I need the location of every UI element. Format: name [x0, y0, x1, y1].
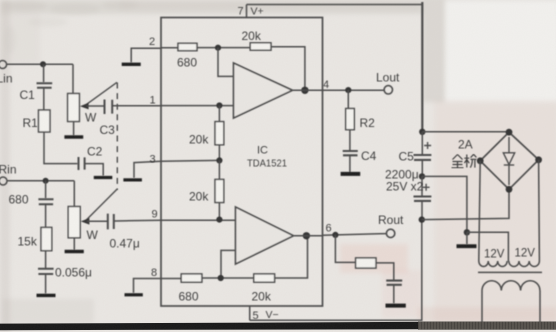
plus sign C5b [423, 184, 430, 191]
potentiometer VR1 body [68, 94, 80, 122]
capacitor C5a [414, 155, 432, 160]
wire pin1 node to 20k a [218, 106, 220, 122]
node pin1 [216, 102, 222, 108]
capacitor C3 [105, 100, 113, 115]
wire Rin to pot2 [7, 180, 74, 182]
wire 0.056 to ground [45, 275, 47, 294]
wire 680 to 20k fb1 [197, 47, 250, 49]
terminal Rout [386, 229, 394, 237]
transformer secondary right 12V [509, 261, 540, 267]
wire C5a to mid node [421, 160, 423, 176]
wire node to transformer tap [467, 232, 509, 261]
resistor 680 pin2 [178, 43, 197, 50]
wire 20k b to pin9 node [218, 203, 220, 220]
resistor R1 [39, 110, 51, 132]
wire C2 to ground [86, 164, 104, 176]
IC box TDA1521 [161, 18, 323, 307]
capacitor C4 [343, 151, 358, 155]
wire R1 to C2 [44, 132, 77, 164]
pin 7 stub [246, 5, 248, 18]
node fb1 [215, 45, 221, 51]
transformer primary [482, 281, 540, 323]
wire node to R2 [347, 90, 349, 108]
wire pin3 [161, 159, 219, 162]
wire node to 680 cap [45, 181, 47, 198]
wire node to zobel resistor [335, 235, 355, 263]
ground pot1 [64, 135, 83, 138]
wire wiper1 to C3 [87, 105, 104, 107]
capacitor 0.47u [108, 214, 114, 230]
wire node to C1 [43, 64, 45, 82]
V+ rail [247, 2, 423, 132]
wire fb2 to output [275, 236, 308, 278]
node Lin junction [40, 61, 46, 67]
wire pin9 [161, 219, 236, 221]
wire C1 to R1 [43, 89, 45, 111]
input terminal Rin [0, 177, 7, 185]
ground pot2 [65, 250, 84, 253]
wire C5b to bottom node [421, 201, 423, 219]
black scan bar bottom [0, 322, 556, 331]
capacitor C1 [37, 83, 53, 88]
wire 15k to 0.056 [45, 251, 47, 268]
node opamp2 output [303, 232, 310, 239]
node V+ C5 top [419, 129, 425, 135]
terminal Lout [384, 86, 392, 94]
wire pin2 to 680 [161, 47, 178, 49]
wire 680 to node [202, 277, 254, 279]
ground zobel2 [386, 304, 406, 308]
wire 0.47 to pin9 [115, 219, 162, 222]
resistor 680 pin8 [181, 274, 202, 282]
wire Rin to pot2 top [73, 181, 75, 207]
wire pin2 stub [131, 48, 161, 62]
wire C4 to ground [349, 156, 351, 172]
resistor 20k b [215, 179, 224, 202]
wire Lin to pot1 top [72, 64, 74, 93]
input terminal Lin [0, 61, 7, 69]
pink tint right area [434, 100, 556, 324]
capacitor zobel2 [386, 281, 402, 285]
wire pin6 to Rout [294, 234, 387, 236]
wire pin3 stub [134, 161, 161, 178]
op-amp A1 [234, 63, 293, 118]
pink tint bottom strip right [418, 307, 556, 322]
node C5 bottom [419, 216, 425, 222]
wire pin3 node to 20k b [218, 160, 220, 179]
wire node to opamp1 inverting input [218, 48, 234, 77]
wire zobel resistor to cap [376, 263, 394, 280]
diode inside bridge [503, 137, 514, 185]
capacitor C2 [79, 157, 85, 170]
transformer core [478, 271, 542, 273]
faint scan smudges top-left [3, 1, 138, 54]
wire bridge left AC lead [479, 161, 480, 261]
wire node to ground [466, 232, 468, 244]
ground C4 [341, 172, 361, 176]
wire pot2 to ground [73, 238, 75, 250]
transformer secondary left 12V [479, 261, 507, 267]
wire Lin to pot [7, 63, 73, 65]
gang coupling dashed line [116, 83, 118, 191]
resistor 20k fb1 [250, 43, 271, 50]
pot2 wiper arrow [81, 189, 118, 225]
wire mid to C5b [421, 176, 423, 195]
node opamp1 output [301, 87, 308, 94]
wire C3 to pin1 [113, 105, 161, 107]
wire R2 to C4 [349, 130, 351, 150]
node C5 midpoint [419, 173, 425, 179]
node Rin junction [43, 178, 49, 184]
bridge corner nodes [477, 129, 542, 193]
wire 20k a to pin3 node [218, 145, 220, 161]
white patch top-right [444, 0, 556, 102]
capacitor 680 [38, 199, 53, 204]
wire fb1 to output [271, 47, 305, 91]
node pin3 [216, 157, 222, 163]
wire 680 to 15k [45, 205, 47, 227]
wire pin8 stub [134, 279, 162, 293]
pot1 wiper arrow [80, 82, 117, 109]
wire opamp2 lower input [221, 250, 236, 278]
resistor zobel2 [356, 258, 376, 268]
potentiometer VR2 body [68, 207, 80, 238]
pin 5 stub [249, 306, 251, 320]
plus sign C5a [424, 142, 431, 149]
ground C2 [94, 176, 113, 179]
wire pot1 to ground [73, 122, 75, 136]
wire pin4 to Lout [293, 89, 385, 91]
bridge rectifier 2A [480, 132, 538, 189]
wire V+ to bridge plus [422, 131, 509, 133]
node center tap [464, 229, 470, 235]
resistor R2 [346, 109, 355, 130]
ground pin8 [125, 293, 143, 296]
gray smudge bottom-left [2, 299, 94, 323]
wire C5 top [421, 132, 423, 154]
op-amp A2 [236, 207, 294, 264]
gray band at page edge top-right [423, 0, 445, 102]
ground ch2 [37, 294, 56, 297]
node Rout junction [332, 232, 338, 238]
ground center tap [457, 244, 477, 248]
node pin9 [216, 217, 222, 223]
V- rail [250, 220, 422, 321]
wire bridge right AC lead [538, 160, 541, 261]
wire pin1 [161, 105, 234, 107]
wire wiper2 to cap [87, 220, 107, 222]
wire midpoint to center tap [422, 176, 467, 232]
ground pin2 [122, 63, 141, 66]
pink tint around zobel2 [340, 244, 408, 273]
node Lout junction [345, 87, 351, 93]
capacitor 0.056u [38, 269, 54, 274]
resistor 20k a [215, 122, 224, 145]
capacitor C5b [414, 197, 432, 201]
wire pin8 to 680 [161, 278, 181, 280]
label 全桥 drawn strokes [452, 154, 477, 168]
resistor 15k [41, 227, 52, 250]
node fb2 [218, 275, 224, 281]
ground pin3 [123, 178, 141, 181]
wire zobel cap to ground [393, 285, 395, 303]
resistor 20k fb2 [254, 274, 275, 282]
wire C5 bottom to bridge minus [422, 189, 509, 219]
